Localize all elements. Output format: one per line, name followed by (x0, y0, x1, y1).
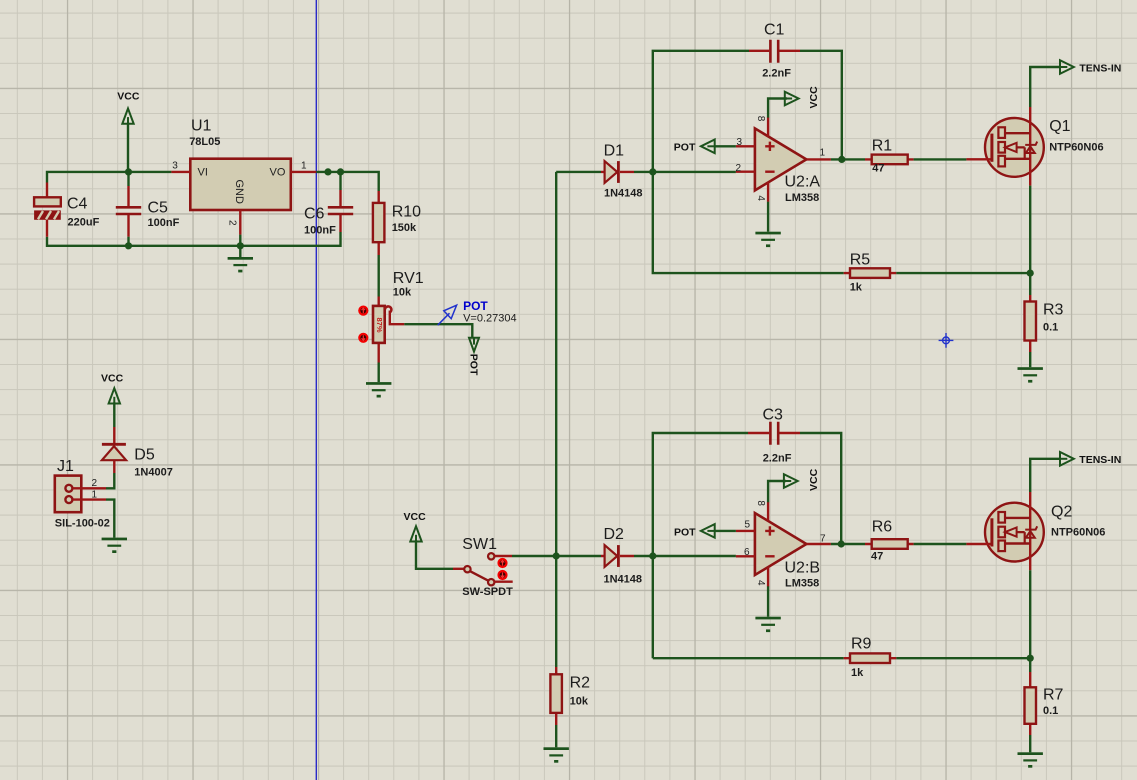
svg-text:87%: 87% (375, 318, 384, 333)
svg-text:47: 47 (872, 163, 884, 175)
svg-text:VCC: VCC (808, 468, 820, 491)
svg-text:J1: J1 (57, 458, 74, 475)
resistor R5 1k (844, 252, 897, 294)
svg-text:6: 6 (744, 547, 750, 558)
svg-text:POT: POT (674, 527, 696, 539)
svg-text:7: 7 (820, 534, 826, 545)
diode D2 1N4148 (556, 526, 642, 586)
svg-text:Q2: Q2 (1051, 504, 1072, 521)
svg-text:1: 1 (820, 148, 826, 159)
svg-text:R6: R6 (872, 519, 893, 536)
svg-text:VCC: VCC (117, 91, 140, 103)
svg-text:POT: POT (468, 354, 480, 376)
wire U2:A pin4 to ground (767, 202, 769, 232)
power VCC (U2:B pin8) (768, 468, 820, 502)
regulator U1 78L05 (171, 118, 316, 235)
svg-text:TENS-IN: TENS-IN (1079, 454, 1121, 466)
wire output rail (316, 172, 378, 191)
svg-text:D2: D2 (604, 526, 625, 543)
wire R1 to Q1 gate (914, 158, 967, 160)
svg-text:TENS-IN: TENS-IN (1079, 63, 1121, 75)
capacitor C1 2.2nF (749, 22, 800, 80)
wire U1 pin2 to ground (239, 235, 241, 257)
svg-text:3: 3 (737, 137, 743, 148)
svg-text:SW-SPDT: SW-SPDT (462, 586, 513, 598)
blue axis line (315, 0, 317, 780)
svg-text:0.1: 0.1 (1043, 705, 1058, 717)
ground (below U1) (228, 257, 253, 272)
svg-text:5: 5 (745, 519, 751, 530)
node junction VCC/C5 on input rail (125, 168, 132, 175)
svg-text:C4: C4 (67, 196, 88, 213)
wire R7 to ground (1029, 735, 1031, 752)
power VCC (U2:A pin8) (768, 86, 820, 118)
node junction C6 tap (337, 168, 344, 175)
wire J1 pin1 to ground (106, 500, 114, 538)
svg-text:VCC: VCC (404, 511, 427, 523)
svg-text:V=0.27304: V=0.27304 (463, 313, 517, 325)
capacitor C3 2.2nF (748, 407, 800, 465)
resistor R2 10k (550, 667, 590, 725)
svg-text:1: 1 (92, 490, 98, 501)
resistor R3 0.1 (1025, 273, 1064, 352)
wire Q1 source down (1029, 186, 1031, 274)
wire Q2 source down (1029, 570, 1031, 658)
potentiometer RV1 10k (373, 270, 424, 363)
svg-text:78L05: 78L05 (189, 136, 220, 148)
svg-text:R10: R10 (392, 204, 421, 221)
op-amp U2:A LM358 (736, 116, 831, 204)
resistor R6 47 (865, 519, 914, 563)
svg-text:2: 2 (92, 478, 98, 489)
svg-text:2: 2 (736, 163, 742, 174)
svg-text:150k: 150k (392, 222, 417, 234)
svg-text:Q1: Q1 (1049, 118, 1070, 135)
svg-text:LM358: LM358 (785, 577, 819, 589)
node junction on output rail (324, 168, 331, 175)
ground (below R3) (1017, 367, 1042, 382)
svg-text:NTP60N06: NTP60N06 (1049, 142, 1103, 154)
wire R9 to junction (896, 657, 1030, 659)
svg-text:D1: D1 (604, 143, 625, 160)
svg-text:2.2nF: 2.2nF (763, 453, 792, 465)
svg-text:C1: C1 (764, 22, 785, 39)
node junction U2:A output (838, 156, 845, 163)
wire C1 to output (800, 51, 842, 160)
diode D5 1N4007 (102, 427, 173, 479)
svg-text:C6: C6 (304, 206, 325, 223)
svg-text:1N4148: 1N4148 (604, 188, 643, 200)
svg-text:U2:A: U2:A (785, 173, 821, 190)
wire R2 to ground (555, 725, 557, 747)
svg-text:10k: 10k (570, 696, 589, 708)
svg-text:GND: GND (233, 180, 245, 204)
svg-text:LM358: LM358 (785, 192, 819, 204)
svg-text:R3: R3 (1043, 302, 1064, 319)
blue crosshair marker (939, 333, 954, 348)
terminal TENS-IN (Q1 drain) (1030, 60, 1121, 107)
svg-text:VO: VO (270, 167, 286, 179)
terminal TENS-IN (Q2 drain) (1030, 452, 1121, 492)
wire output to R1 (831, 158, 865, 160)
ground (below RV1) (366, 382, 391, 397)
wire D5 to J1 pin2 (106, 473, 114, 488)
svg-text:R1: R1 (872, 138, 893, 155)
switch SW1 SW-SPDT (453, 536, 513, 598)
wire R5 to junction (896, 272, 1030, 274)
svg-text:POT: POT (463, 299, 488, 313)
svg-text:VI: VI (198, 167, 208, 179)
transistor Q2 NTP60N06 (966, 492, 1105, 571)
wire bottom ground rail (47, 232, 341, 246)
svg-text:0.1: 0.1 (1043, 322, 1058, 334)
wire R3 to ground (1029, 352, 1031, 367)
wire input rail top (47, 172, 171, 183)
wire C1 feedback loop (653, 51, 749, 172)
wire C3 feedback loop (653, 433, 748, 556)
wire C3 to output (800, 433, 841, 544)
wire VCC to input rail (127, 123, 129, 172)
terminal POT (down arrow) (468, 338, 480, 376)
wire C3 loop lower vertical (652, 556, 654, 658)
capacitor C6 100nF (304, 172, 353, 237)
svg-text:47: 47 (871, 551, 883, 563)
node junction Q1 source / R5 / R3 (1027, 270, 1034, 277)
svg-text:1N4007: 1N4007 (134, 467, 173, 479)
node junction Q2 source / R9 / R7 (1027, 655, 1034, 662)
actuator button down (SW1) (497, 570, 507, 580)
svg-text:VCC: VCC (808, 86, 820, 109)
svg-text:220uF: 220uF (68, 216, 100, 228)
actuator button up (SW1) (497, 558, 507, 568)
node junction SW1/D2/R2 (553, 552, 560, 559)
terminal POT (U2:B pin5) (674, 524, 736, 538)
ground (U2:A pin4) (755, 232, 780, 247)
svg-text:R9: R9 (851, 636, 872, 653)
ground (below R2) (544, 747, 569, 762)
wire junction to R2 (555, 556, 557, 667)
svg-text:100nF: 100nF (148, 217, 180, 229)
wire VCC to D5 (113, 402, 115, 427)
svg-text:POT: POT (674, 142, 696, 154)
power VCC (top left) (117, 91, 140, 124)
svg-text:NTP60N06: NTP60N06 (1051, 527, 1105, 539)
svg-text:SW1: SW1 (462, 536, 497, 553)
blue cursor arrow (438, 305, 457, 325)
svg-text:R2: R2 (570, 675, 591, 692)
blue probe label POT V=0.27304 (463, 299, 517, 325)
svg-text:10k: 10k (393, 287, 412, 299)
svg-text:1k: 1k (851, 667, 864, 679)
power VCC (J1 branch) (101, 373, 124, 404)
actuator button up (RV1) (358, 306, 368, 316)
diode D1 1N4148 (556, 143, 642, 200)
capacitor C5 100nF (116, 172, 180, 246)
svg-text:D5: D5 (134, 447, 155, 464)
wire R5 feedback loop (653, 172, 844, 273)
svg-text:C5: C5 (148, 200, 169, 217)
wire R6 to Q2 gate (914, 543, 967, 545)
node junction U1 pin2 bottom rail (237, 242, 244, 249)
svg-text:2: 2 (227, 220, 238, 226)
resistor R7 0.1 (1025, 658, 1064, 735)
svg-text:RV1: RV1 (393, 270, 424, 287)
resistor R10 150k (373, 191, 421, 255)
terminal POT (U2:A pin3) (674, 140, 736, 154)
svg-text:1k: 1k (850, 282, 863, 294)
node junction U2:B output (838, 540, 845, 547)
wire D1 input vertical (555, 172, 557, 556)
svg-text:3: 3 (172, 161, 178, 172)
capacitor C4 220uF (34, 183, 99, 237)
wire VCC to SW1 pole (416, 540, 453, 569)
svg-text:VCC: VCC (101, 373, 124, 385)
svg-text:R7: R7 (1043, 687, 1064, 704)
node junction C5 bottom rail (125, 242, 132, 249)
power VCC (SW1 branch) (404, 511, 427, 542)
svg-text:C3: C3 (763, 407, 784, 424)
wire D2 to U2:B pin6 (634, 555, 736, 557)
svg-text:100nF: 100nF (304, 225, 336, 237)
svg-text:2.2nF: 2.2nF (762, 68, 791, 80)
actuator button down (RV1) (358, 333, 368, 343)
ground (U2:B pin4) (755, 617, 780, 632)
wire U2:B pin4 to ground (767, 586, 769, 616)
op-amp U2:B LM358 (736, 500, 831, 589)
svg-text:SIL-100-02: SIL-100-02 (55, 517, 110, 529)
svg-text:U2:B: U2:B (785, 560, 821, 577)
wire R9 feedback bottom (653, 657, 844, 659)
wire SW1 to net (512, 555, 556, 557)
node junction D1 output (649, 168, 656, 175)
wire RV1 bottom to ground (378, 363, 380, 383)
svg-text:1N4148: 1N4148 (604, 574, 643, 586)
ground (below J1) (102, 538, 127, 553)
resistor R9 1k (844, 636, 897, 680)
wire D1 to U2:A pin2 (634, 171, 736, 173)
wire RV1 wiper to POT terminal (404, 324, 472, 338)
svg-text:R5: R5 (850, 252, 871, 269)
ground (below R7) (1017, 752, 1042, 767)
wire output to R6 (831, 543, 865, 545)
node junction D2 output (649, 552, 656, 559)
svg-text:U1: U1 (191, 118, 212, 135)
wire R10 to RV1 (378, 255, 380, 297)
transistor Q1 NTP60N06 (966, 107, 1103, 186)
svg-text:1: 1 (301, 161, 307, 172)
connector J1 SIL-100-02 (55, 458, 110, 529)
resistor R1 47 (865, 138, 914, 175)
